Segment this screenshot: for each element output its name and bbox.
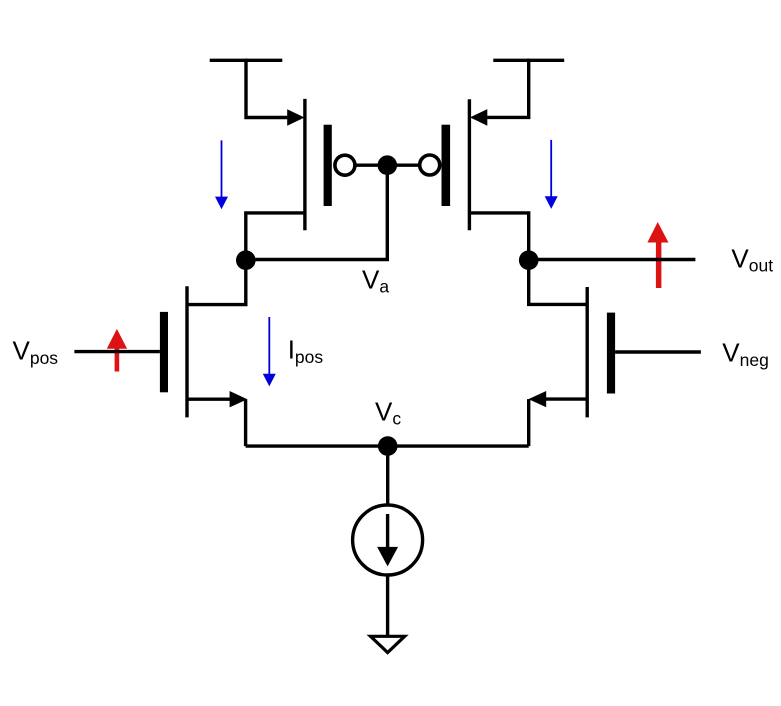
ground symbol [371,636,405,652]
label Vout [731,244,773,276]
M4 source arrow (points into channel) [470,109,487,126]
label Vc [375,396,401,428]
pmos M4 channel [468,99,471,230]
wire M3 drain down to left node [246,213,305,260]
label Vpos [13,336,59,369]
wire M4 source to right rail [486,59,529,118]
supply rail left (VDD bar) [210,59,283,62]
junction dot node Vc [378,436,398,456]
wire M1 gate (Vpos input) [74,350,159,353]
wire M1 drain up to left node [187,260,246,305]
M1 source arrow (points out of channel) [230,391,248,407]
M3 source arrow (points into channel) [287,109,304,126]
wire M4 drain down to right node [469,213,528,260]
wire M2 drain up to right node [529,260,588,305]
blue current arrow right mirror branch [545,140,558,209]
wire gate node to M4 bubble [387,163,419,166]
nmos M2 gate bar [607,313,615,394]
nmos M1 gate bar [160,312,168,392]
pmos M4 gate bar [442,125,451,206]
nmos M1 channel [185,286,188,417]
junction dot left node [236,250,256,270]
label Ipos [288,335,324,368]
wire M3 bubble to gate node [356,163,387,166]
pmos M3 gate bar [324,125,332,206]
blue current arrow Ipos [263,317,276,386]
nmos M2 channel [586,287,589,417]
red voltage arrow Vpos [107,329,127,372]
wire M2 gate (Vneg input) [615,350,701,353]
blue current arrow left mirror branch [215,140,228,209]
pmos M3 channel [303,99,306,230]
wire M3 source to left rail [246,59,289,118]
wire M2 source [545,397,587,400]
wire M1 source down to tail rail [244,399,247,446]
label Vneg [722,338,769,371]
tail rail wire (node Vc) [246,444,529,447]
M2 source arrow (points out of channel) [529,391,547,407]
pmos M4 gate bubble [420,155,440,175]
label Va [362,265,389,297]
current source I1 circle [353,505,423,575]
junction dot right node [519,250,539,270]
wire current source to ground [386,575,389,635]
current source I1 arrow [377,514,398,566]
wire Vc to current source [386,446,389,506]
node Vout wire [529,258,696,261]
junction dot gate node (mirror gates) [378,155,398,175]
node Va wire (L shape to gate node) [246,165,387,259]
pmos M3 gate bubble [335,155,355,175]
wire M2 source down to tail rail [527,399,530,446]
supply rail right (VDD bar) [493,59,564,62]
wire M1 source [187,398,231,401]
red voltage arrow Vout [647,222,668,288]
